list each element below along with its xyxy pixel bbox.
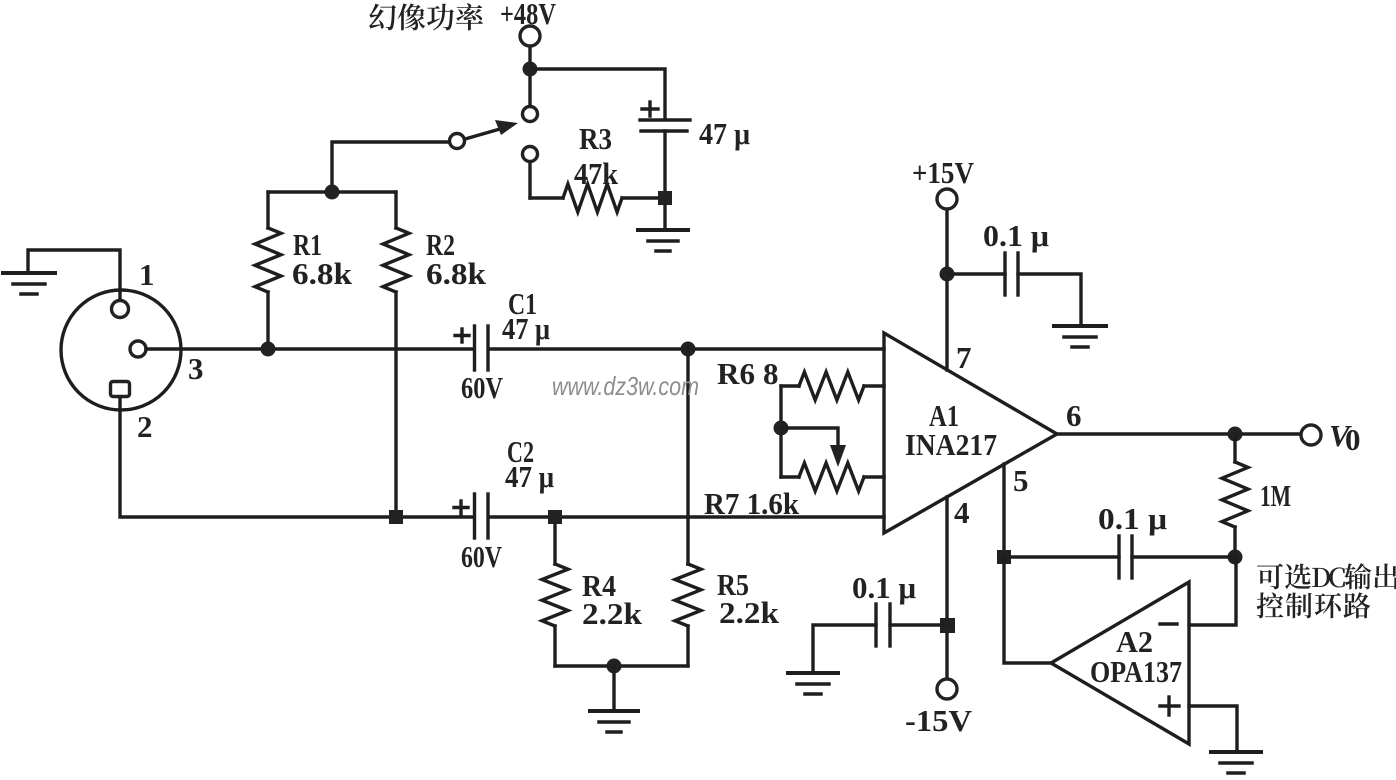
svg-text:OPA137: OPA137 [1090,654,1182,689]
XLR pin 1 [112,301,129,318]
wire R4R5 bottom join [555,664,688,667]
svg-text:0: 0 [1345,422,1361,457]
svg-text:4: 4 [954,495,970,530]
node feedback junction [1228,550,1243,565]
svg-text:+48V: +48V [500,0,556,31]
wire bypass cap to ground [1018,274,1081,325]
wire pin3 signal top row [146,347,474,350]
wire feedback cap to node [1132,555,1235,558]
label + polarity [642,102,658,116]
wire pole to R1R2 rail [332,142,449,188]
svg-text:60V: 60V [461,370,503,405]
svg-text:1M: 1M [1260,478,1291,513]
node output junction [1228,427,1243,442]
wire cap to ground node [663,131,666,196]
switch arm arrow [465,120,518,139]
node phantom junction [523,62,538,77]
svg-text:8: 8 [763,356,779,391]
wire pin4 to -15V [945,497,948,679]
ground (47u cap) [638,230,688,251]
svg-text:0.1 μ: 0.1 μ [1098,501,1167,536]
wire pin2 signal bottom row [120,399,474,517]
resistor R3 [530,196,563,199]
svg-text:6.8k: 6.8k [292,256,353,291]
label 幻像功率 (phantom power) [369,3,483,30]
wire feedback row [1004,555,1119,558]
switch throw contact 2 [523,147,538,162]
node R1 bottom junction [261,342,276,357]
capacitor 47u electrolytic [640,120,690,131]
svg-text:-15V: -15V [905,703,973,738]
wire A2 inverting input [1189,557,1236,625]
svg-text:3: 3 [188,351,204,386]
svg-text:0.1 μ: 0.1 μ [983,218,1049,253]
label + polarity C2 [454,501,468,514]
wire C2 to A1 [490,515,884,518]
wire pin5 [1002,464,1005,551]
capacitor C2 [475,494,489,538]
node +15V junction [940,267,955,282]
ground (XLR shield) [3,273,55,294]
node -15V junction [940,618,955,633]
svg-text:6: 6 [1066,398,1082,433]
wire throw2 to R3 [528,163,531,198]
resistor 1M [1233,434,1236,462]
label + polarity C1 [455,329,469,342]
wire +15V to bypass cap [947,272,1005,275]
node top row branch [681,342,696,357]
wire pin7 to +15V [945,209,948,370]
wire between throws [528,76,531,105]
svg-text:2.2k: 2.2k [582,596,643,631]
svg-text:0.1 μ: 0.1 μ [852,570,916,605]
svg-text:5: 5 [1013,463,1029,498]
node gain wiper junction [774,421,789,436]
terminal V0 [1301,425,1321,445]
wire ground stem [612,666,615,710]
node R4 top junction [548,510,562,524]
terminal -15V [937,679,957,699]
switch pole contact [450,134,465,149]
svg-text:R3: R3 [579,121,612,156]
svg-text:R6: R6 [717,356,755,391]
resistor R2 [394,192,397,228]
svg-text:60V: 60V [461,539,502,574]
wire +48V stem [528,46,531,64]
wire C1 to A1 [490,347,884,350]
svg-text:7: 7 [956,340,972,375]
capacitor C1 [475,326,489,370]
svg-text:+15V: +15V [912,155,975,190]
resistor R5 [686,562,689,565]
svg-text:2: 2 [137,409,153,444]
svg-text:INA217: INA217 [905,427,997,462]
label 可选DC输出 (optional DC output) [1257,563,1396,589]
capacitor 0.1u (feedback) [1119,536,1132,578]
wire bypass cap to ground [813,625,876,672]
label 控制环路 (control loop) [1257,592,1371,618]
terminal +48V [520,26,540,46]
ground (+15V bypass) [1054,326,1106,347]
capacitor 0.1u (-15V bypass) [876,604,890,646]
svg-text:www.dz3w.com: www.dz3w.com [552,371,699,401]
ground (R4R5) [590,711,638,732]
svg-text:47 μ: 47 μ [505,459,554,494]
connector XLR body [61,290,181,410]
resistor R7 [781,475,799,478]
op-amp A1 INA217 [884,333,1057,533]
ground (-15V bypass) [788,673,838,694]
ground (A2 +input) [1211,752,1261,773]
XLR pin 2 [111,382,130,397]
node pin5 junction [997,550,1011,564]
node R3/cap junction [658,191,672,205]
wire A2 noninverting to ground [1189,706,1237,751]
svg-text:47k: 47k [574,156,619,191]
resistor R6 [781,384,799,387]
wire pin1 to ground [28,250,120,299]
wire wiper arm [781,428,838,450]
wire A1 output [1057,432,1301,435]
wire branch down to R5 [686,349,689,564]
capacitor 0.1u (+15V bypass) [1005,253,1018,295]
wire -15V to bypass cap [890,623,947,626]
wire A2 output [1004,557,1051,663]
wire phantom top rail [530,69,665,118]
op-amp A2 OPA137 [1051,582,1189,744]
svg-text:R7 1.6k: R7 1.6k [704,486,800,521]
wire R1R2 top rail [268,190,396,193]
switch throw contact 1 [523,107,538,122]
node R4R5 ground junction [607,659,622,674]
svg-text:2.2k: 2.2k [719,595,780,630]
svg-text:1: 1 [139,257,155,292]
resistor R4 [553,524,556,564]
svg-text:47 μ: 47 μ [502,311,550,346]
label plus input [1160,697,1179,715]
label minus input [1160,622,1177,625]
node R2 bottom junction [389,510,403,524]
resistor R1 [266,192,269,228]
node R1R2 rail junction [325,185,340,200]
wire ground stem [663,202,666,229]
wire gain left rail [779,386,782,477]
svg-text:6.8k: 6.8k [426,256,487,291]
svg-text:47 μ: 47 μ [699,116,750,151]
terminal +15V [937,189,957,209]
XLR pin 3 [130,341,146,357]
